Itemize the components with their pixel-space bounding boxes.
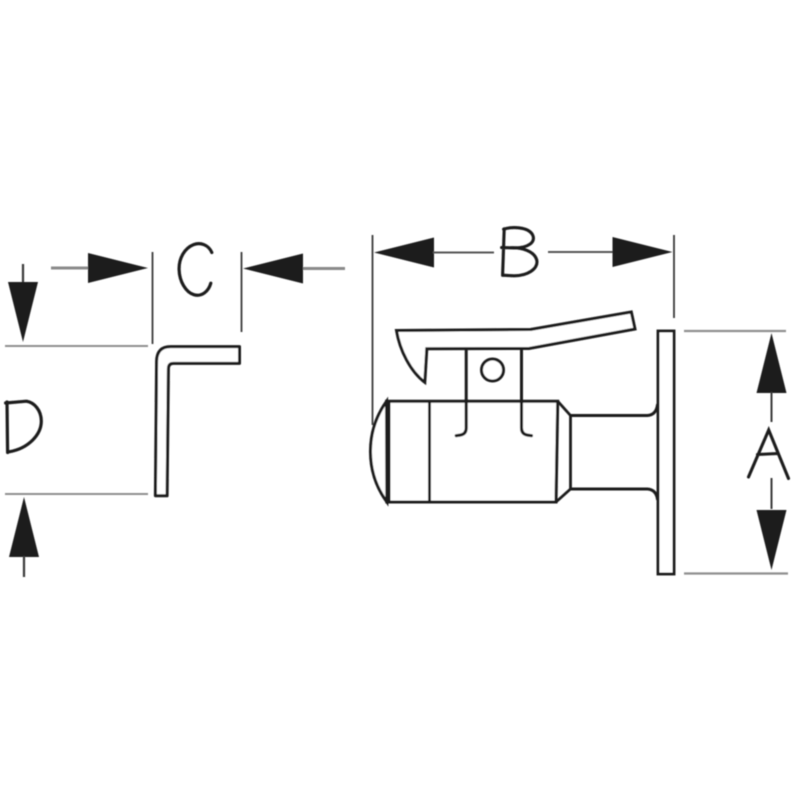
dimension D arrowhead down-pointing — [8, 282, 38, 342]
label C — [179, 244, 212, 296]
latch body cylinder — [387, 401, 558, 502]
latch housing bracket left vertical — [465, 349, 468, 401]
body left end cap arc — [370, 401, 386, 502]
dimension A extent line bottom — [684, 572, 788, 574]
label B — [502, 228, 537, 276]
dimension C arrowhead right-pointing — [88, 253, 148, 283]
label D — [6, 401, 42, 452]
dimension B extension line right — [673, 235, 675, 318]
L-bracket (strike plate) — [155, 347, 239, 496]
spring leg left with foot — [456, 400, 466, 436]
extension line C left — [152, 252, 154, 344]
dimension B line left segment — [433, 252, 494, 254]
extension line C right — [241, 252, 243, 332]
dimension B arrowhead left-pointing — [374, 238, 434, 268]
cap tangent line — [388, 401, 391, 502]
neck bottom edge with fillet — [571, 489, 658, 500]
dimension C tail right — [303, 267, 345, 270]
dimension A stub lower — [771, 478, 773, 509]
mounting flange — [658, 331, 674, 574]
dimension D stub top — [22, 264, 24, 284]
dimension A arrowhead down-pointing — [757, 510, 787, 570]
dimension C arrowhead left-pointing — [243, 254, 303, 284]
dimension B line right segment — [548, 251, 613, 253]
latch housing bracket right vertical — [520, 349, 523, 401]
cone-neck joint line — [569, 416, 572, 490]
neck top edge with fillet — [571, 404, 658, 416]
dimension A arrowhead up-pointing — [757, 333, 787, 393]
dimension A extent line top — [684, 330, 786, 332]
label A — [749, 430, 789, 479]
dimension C tail left — [51, 267, 92, 270]
spring leg right with foot — [522, 400, 532, 436]
extent line D top — [5, 345, 148, 347]
pivot pin circle — [482, 359, 504, 381]
dimension A stub upper — [771, 392, 773, 422]
dimension D stub bottom — [23, 556, 25, 577]
dimension B arrowhead right-pointing — [613, 237, 673, 267]
dimension B extension line left — [372, 235, 374, 425]
latch lever arm with claw — [397, 312, 636, 382]
body right chamfer top — [558, 401, 571, 415]
dimension D arrowhead up-pointing — [9, 497, 39, 557]
extent line D bottom — [5, 493, 148, 495]
body right chamfer bottom — [556, 489, 571, 502]
body division line — [428, 401, 431, 502]
